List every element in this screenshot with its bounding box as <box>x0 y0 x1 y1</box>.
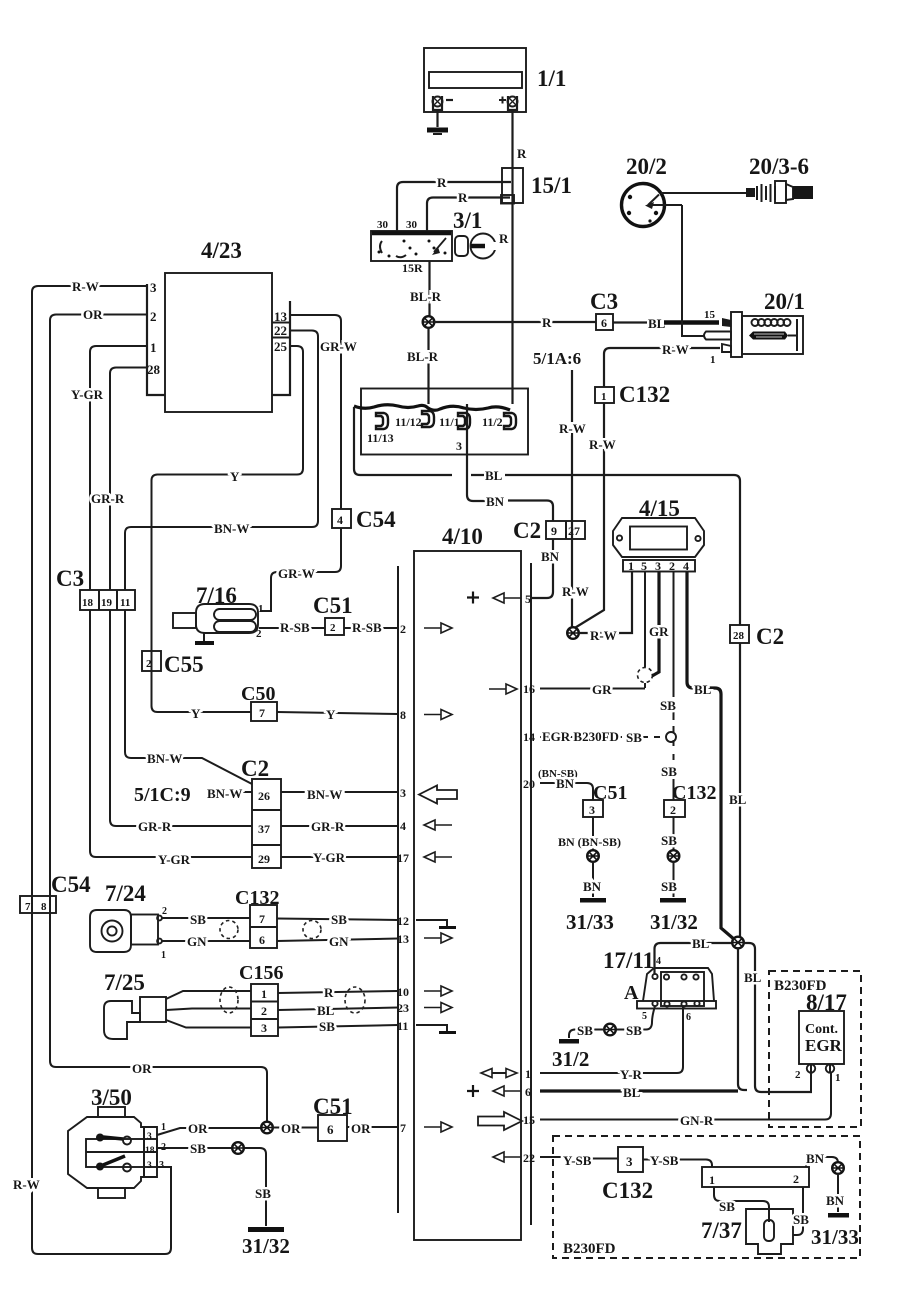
svg-text:5/1C:9: 5/1C:9 <box>134 784 191 806</box>
svg-text:7/16: 7/16 <box>196 583 237 608</box>
svg-text:C132: C132 <box>602 1178 653 1203</box>
wire Y-SB 4/10 pin22 to C132-3 <box>540 1157 618 1159</box>
wire Y-GR C2-29 to 4/10 pin17 <box>281 856 398 858</box>
svg-text:1: 1 <box>150 340 157 355</box>
svg-text:BN-W: BN-W <box>214 521 249 536</box>
svg-text:GN: GN <box>187 934 207 949</box>
svg-text:15/1: 15/1 <box>531 173 572 198</box>
connector C51 pin 3 <box>583 800 603 817</box>
wire GN C132-6 to 4/10 pin13 <box>277 939 398 942</box>
svg-text:7: 7 <box>259 706 265 720</box>
svg-text:SB: SB <box>190 912 206 927</box>
wire GR-W 4/23-13 to C54 <box>290 315 341 509</box>
junction SB <box>604 1024 616 1036</box>
svg-text:1: 1 <box>161 1122 166 1133</box>
junction OR <box>261 1122 273 1134</box>
svg-text:SB: SB <box>626 730 642 745</box>
svg-text:SB: SB <box>190 1141 206 1156</box>
svg-text:15R: 15R <box>402 261 423 275</box>
svg-text:1: 1 <box>261 987 267 1001</box>
connector C54 pin 4 <box>332 509 351 528</box>
svg-text:1: 1 <box>709 1173 715 1187</box>
shield marker right of C132 <box>303 921 321 939</box>
svg-text:2: 2 <box>669 559 675 573</box>
svg-text:2: 2 <box>795 1069 801 1081</box>
svg-text:2: 2 <box>330 622 336 634</box>
ground 31/33 <box>566 898 614 934</box>
junction BL <box>732 937 744 949</box>
svg-text:14: 14 <box>523 730 535 744</box>
svg-text:3: 3 <box>400 786 406 800</box>
svg-text:C51: C51 <box>313 1094 353 1119</box>
svg-text:20/2: 20/2 <box>626 154 667 179</box>
temp sensor 7/25 <box>104 997 166 1039</box>
svg-text:R: R <box>437 175 447 190</box>
half ground symbol at pin 12 <box>416 920 456 928</box>
svg-text:2: 2 <box>150 309 157 324</box>
svg-text:2: 2 <box>670 803 676 817</box>
ground 31/33 <box>811 1213 859 1249</box>
svg-text:OR: OR <box>351 1121 371 1136</box>
svg-text:6: 6 <box>601 316 607 330</box>
svg-text:BN-W: BN-W <box>307 787 342 802</box>
injector sub-box wall <box>466 404 468 454</box>
svg-text:7/37: 7/37 <box>701 1218 742 1243</box>
svg-text:30: 30 <box>406 219 418 231</box>
svg-text:BN: BN <box>486 494 505 509</box>
wire 4/15 pin5 to GR line <box>644 572 646 689</box>
injector 11/12 <box>422 411 434 427</box>
svg-text:C2: C2 <box>241 756 269 781</box>
wire BN C51-3 down <box>592 817 594 850</box>
wire BN-W C3-11 to C2-26 <box>125 610 252 784</box>
svg-text:R-W: R-W <box>559 421 586 436</box>
wire SB C156-3 to 4/10 pin11 <box>278 1025 398 1028</box>
svg-text:GR-W: GR-W <box>278 566 315 581</box>
svg-text:31/2: 31/2 <box>552 1047 589 1071</box>
svg-text:C3: C3 <box>56 566 84 591</box>
svg-text:8: 8 <box>400 708 406 722</box>
svg-text:1: 1 <box>161 950 166 961</box>
svg-text:BL: BL <box>623 1085 641 1100</box>
junction BL-R/R <box>423 316 435 328</box>
svg-text:EGR B230FD: EGR B230FD <box>542 729 619 744</box>
svg-text:Y-SB: Y-SB <box>650 1153 679 1168</box>
EGR controller enclosure B230FD <box>769 971 861 1127</box>
svg-text:BN-W: BN-W <box>207 786 242 801</box>
svg-text:BL: BL <box>485 468 503 483</box>
svg-text:R-W: R-W <box>590 628 617 643</box>
svg-text:3: 3 <box>147 1161 152 1171</box>
svg-text:BL-R: BL-R <box>410 289 442 304</box>
svg-text:3: 3 <box>147 1132 152 1142</box>
shield marker on 7/25 wires <box>220 987 238 1013</box>
svg-text:13: 13 <box>274 309 288 324</box>
svg-text:R-W: R-W <box>589 437 616 452</box>
svg-text:BN-W: BN-W <box>147 751 182 766</box>
svg-text:Y-SB: Y-SB <box>563 1153 592 1168</box>
solenoid 7/37 <box>746 1209 793 1254</box>
knock sensor 7/24 <box>90 910 162 952</box>
svg-text:7: 7 <box>25 901 31 913</box>
wire R-W from 5/1A:6 through C2-27 to junction <box>571 370 573 627</box>
svg-text:BL-R: BL-R <box>407 349 439 364</box>
svg-text:9: 9 <box>551 524 557 538</box>
svg-text:C2: C2 <box>513 518 541 543</box>
svg-text:Y-GR: Y-GR <box>71 387 104 402</box>
wire SB relay-5 to junction <box>616 1006 655 1030</box>
svg-text:R: R <box>458 190 468 205</box>
arrow at pin 4 <box>424 820 452 830</box>
wire GR 4/10-16 to 4/15-5 <box>540 688 645 690</box>
EGR controller 8/17 <box>799 1011 844 1073</box>
upper contact of 3/50 <box>96 1134 131 1145</box>
wire Y 4/23-25 to C55 <box>152 346 304 651</box>
throttle switch 3/50 <box>68 1107 157 1198</box>
ECU 4/23 <box>147 273 290 412</box>
svg-text:BL: BL <box>729 792 747 807</box>
svg-text:OR: OR <box>83 307 103 322</box>
svg-text:C50: C50 <box>241 683 275 705</box>
svg-text:SB: SB <box>577 1023 593 1038</box>
svg-text:8: 8 <box>41 901 47 913</box>
wire R-W through C2-27 <box>571 521 573 539</box>
wire BL junction down to pin6 line <box>738 948 747 1090</box>
svg-text:20/1: 20/1 <box>764 289 805 314</box>
svg-text:GR-R: GR-R <box>91 491 125 506</box>
wire 7/25 to C156-1 <box>166 991 251 999</box>
svg-text:R-W: R-W <box>13 1177 40 1192</box>
wire R battery to fuse 15/1 <box>511 110 513 168</box>
junction R-W <box>567 627 579 639</box>
svg-text:GR-R: GR-R <box>311 819 345 834</box>
svg-text:BN: BN <box>583 879 602 894</box>
svg-text:BN: BN <box>556 776 575 791</box>
svg-text:7: 7 <box>400 1121 406 1135</box>
wire R-W coil to C132 <box>604 348 720 387</box>
svg-text:BN (BN-SB): BN (BN-SB) <box>558 835 621 849</box>
svg-text:6: 6 <box>259 933 265 947</box>
svg-text:4: 4 <box>400 819 406 833</box>
svg-text:SB: SB <box>661 833 677 848</box>
svg-text:2: 2 <box>400 622 406 636</box>
connector block of 7/37 <box>702 1167 809 1187</box>
double arrow at pin 1 <box>481 1069 517 1078</box>
connector C132 pins 7/6 <box>250 905 277 948</box>
svg-text:BN: BN <box>806 1151 825 1166</box>
shield marker right of C156 <box>345 987 365 1013</box>
svg-text:6: 6 <box>525 1085 531 1099</box>
svg-text:6: 6 <box>327 1122 334 1137</box>
inline connector on SB wire <box>666 732 676 742</box>
wire SB C132-7 to 4/10 pin12 <box>277 919 398 921</box>
svg-text:28: 28 <box>147 362 161 377</box>
svg-text:11: 11 <box>397 1019 408 1033</box>
wire R-SB 7/16-2 to C51 <box>259 627 325 629</box>
svg-text:R-SB: R-SB <box>280 620 310 635</box>
svg-text:R-W: R-W <box>72 279 99 294</box>
connector C54 pins 7/8 <box>20 896 56 913</box>
svg-text:BL: BL <box>692 936 710 951</box>
wire GR-R C3-19 to C2-37 <box>110 610 252 826</box>
svg-text:20/3-6: 20/3-6 <box>749 154 809 179</box>
block arrow at pin 15 <box>478 1112 522 1130</box>
junction BN <box>587 850 599 862</box>
connector C2 pin 28 <box>730 625 749 643</box>
wire SB 3/50-2 to ground <box>157 1148 266 1226</box>
svg-text:Cont.: Cont. <box>805 1022 838 1037</box>
svg-text:12: 12 <box>397 914 409 928</box>
svg-text:1: 1 <box>628 559 634 573</box>
svg-text:SB: SB <box>660 698 676 713</box>
svg-text:18: 18 <box>82 597 94 609</box>
wire GR-R 4/23-28 to C3-19 <box>110 368 147 591</box>
svg-text:1/1: 1/1 <box>537 66 566 91</box>
svg-text:C55: C55 <box>164 652 204 677</box>
svg-text:10: 10 <box>397 985 409 999</box>
connector C156 pins 1/2/3 <box>251 984 278 1036</box>
svg-text:1: 1 <box>525 1067 531 1081</box>
svg-text:GR-R: GR-R <box>138 819 172 834</box>
svg-text:Y: Y <box>230 469 240 484</box>
svg-text:SB: SB <box>661 764 677 779</box>
wire BN 4/10 pin20 to C51 <box>540 783 593 800</box>
wire BN C2-9 to 4/10 pin5 <box>531 539 553 598</box>
svg-text:11: 11 <box>120 597 130 609</box>
wire GR-R C2-37 to 4/10 pin4 <box>281 825 398 827</box>
wire BN 7/37-2 to ground <box>806 1157 838 1167</box>
svg-text:16: 16 <box>523 682 535 696</box>
wire BL 4/15 pin4 to junction <box>687 572 735 941</box>
wire OR 3/50-1 to junction <box>157 1128 261 1135</box>
injector unit box 11/1 11/2 11/12 11/13 <box>361 389 528 455</box>
svg-text:BN: BN <box>826 1193 845 1208</box>
wire R junction to connector C3 <box>434 321 596 323</box>
wire BN-W 5/1C:9 to C2-26 <box>207 791 252 793</box>
svg-text:7/24: 7/24 <box>105 881 146 906</box>
wire Y-GR 4/23-1 to C3-18 <box>90 346 147 590</box>
wire R-SB C51 to 4/10 pin2 <box>344 627 398 629</box>
svg-text:7: 7 <box>259 912 265 926</box>
svg-text:OR: OR <box>188 1121 208 1136</box>
ignition switch 3/1 <box>371 231 452 261</box>
connector C2 pins 9/27 <box>546 521 585 539</box>
svg-text:15: 15 <box>704 309 716 321</box>
svg-text:31/33: 31/33 <box>811 1225 859 1249</box>
wire 7/25 to C156-2 <box>166 1009 251 1011</box>
svg-text:SB: SB <box>331 912 347 927</box>
svg-text:37: 37 <box>258 822 270 836</box>
svg-text:R: R <box>517 146 527 161</box>
arrow at pin 2 <box>424 623 452 633</box>
svg-text:2: 2 <box>793 1172 799 1186</box>
svg-text:25: 25 <box>274 339 288 354</box>
svg-text:8/17: 8/17 <box>806 990 847 1015</box>
wire 3/50-3 stub <box>157 1166 171 1168</box>
arrow at pin 17 <box>424 852 452 862</box>
relay 17/11 <box>637 968 716 1009</box>
wire distributor to spark plugs <box>661 192 746 194</box>
svg-text:18: 18 <box>145 1146 155 1156</box>
svg-text:Y: Y <box>191 706 201 721</box>
svg-text:22: 22 <box>523 1151 535 1165</box>
shield marker on pin5 wire <box>638 668 653 683</box>
svg-text:23: 23 <box>397 1001 409 1015</box>
svg-text:28: 28 <box>733 630 745 642</box>
svg-text:4/15: 4/15 <box>639 496 680 521</box>
wire OR junction to C51 <box>273 1127 319 1129</box>
svg-text:3: 3 <box>261 1021 267 1035</box>
wire BN-W 4/23-22 to C3-11 <box>125 331 318 591</box>
connector C132 pin 3 <box>618 1147 643 1172</box>
ground 31/32 <box>650 898 698 934</box>
svg-text:R-W: R-W <box>662 342 689 357</box>
svg-text:3/50: 3/50 <box>91 1085 132 1110</box>
spark plug 20/3-6 <box>746 181 813 203</box>
wire BL to EGR pin 2 <box>810 1073 812 1092</box>
svg-text:SB: SB <box>793 1212 809 1227</box>
wire GR 4/15 pin3 <box>652 572 659 677</box>
wire GN 7/24 to C132-6 <box>162 940 250 942</box>
half ground symbol at pin 11 <box>416 1025 456 1033</box>
svg-text:C132: C132 <box>235 887 279 909</box>
svg-text:C132: C132 <box>672 782 716 804</box>
wire SB 7/37-2 to solenoid <box>793 1187 803 1235</box>
ignition key symbol <box>455 234 498 259</box>
battery positive terminal <box>499 96 518 110</box>
svg-text:17: 17 <box>397 851 409 865</box>
arrow at pin 16 <box>489 684 517 694</box>
svg-text:R-W: R-W <box>562 584 589 599</box>
connector C51 pin 6 <box>318 1115 347 1141</box>
connector C3 pins 18/19/11 <box>80 590 135 610</box>
wire 3 from injector unit <box>467 454 485 501</box>
wire BL-R switch to junction <box>428 261 430 317</box>
wire SB dashed from 4/10 pin14 <box>540 736 660 738</box>
connector C51 pin 2 <box>325 618 344 635</box>
svg-text:29: 29 <box>258 852 270 866</box>
svg-text:11/13: 11/13 <box>367 431 394 445</box>
wire BL injector unit left leg <box>354 407 360 475</box>
wire BL-R junction down to injector unit <box>427 328 429 405</box>
connector C132 pin 2 <box>664 800 685 817</box>
svg-text:4: 4 <box>683 559 689 573</box>
svg-text:3: 3 <box>150 280 157 295</box>
svg-text:GR-W: GR-W <box>320 339 357 354</box>
svg-text:13: 13 <box>397 932 409 946</box>
svg-text:4: 4 <box>337 513 343 527</box>
svg-text:2: 2 <box>162 906 167 917</box>
svg-text:Y-GR: Y-GR <box>313 850 346 865</box>
svg-text:C54: C54 <box>51 872 91 897</box>
wire BL 4/10 pin6 <box>540 1089 738 1092</box>
svg-text:GR: GR <box>649 624 669 639</box>
wire Y-R 4/10 pin1 to relay-6 <box>540 1007 683 1073</box>
svg-text:SB: SB <box>719 1199 735 1214</box>
svg-text:C51: C51 <box>313 593 353 618</box>
svg-text:31/32: 31/32 <box>650 910 698 934</box>
bottom enclosure B230FD <box>553 1136 860 1258</box>
wire SB 4/15 pin2 down <box>673 572 675 801</box>
svg-text:5/1A:6: 5/1A:6 <box>533 349 581 368</box>
wire Y C55 to C50 <box>152 671 252 712</box>
svg-text:C2: C2 <box>756 624 784 649</box>
wire BL relay-4 to junction <box>655 943 733 974</box>
junction SB <box>232 1142 244 1154</box>
ground 31/32 <box>242 1227 290 1258</box>
svg-text:2: 2 <box>256 628 262 640</box>
wire GR-W C54 to 7/16 pin1 <box>260 528 341 611</box>
svg-text:Y-R: Y-R <box>620 1067 643 1082</box>
arrow at pin 13 <box>424 933 452 943</box>
wire SB junction to ground <box>569 1030 605 1039</box>
wire BN to C2 pin 9 <box>508 501 553 522</box>
wire BN to ground 31/33 <box>837 1174 839 1213</box>
svg-text:1: 1 <box>710 354 716 366</box>
arrow at pin 8 <box>424 710 452 720</box>
svg-text:11/2: 11/2 <box>482 415 503 429</box>
wire R-W 4/23-3 to 3/50-3 <box>32 286 171 1254</box>
svg-text:1: 1 <box>601 391 607 403</box>
svg-text:SB: SB <box>319 1019 335 1034</box>
svg-text:1: 1 <box>258 603 264 615</box>
sensor 7/16 <box>173 604 258 633</box>
svg-text:7/25: 7/25 <box>104 970 145 995</box>
svg-text:BN: BN <box>541 549 560 564</box>
svg-text:GN: GN <box>329 934 349 949</box>
svg-text:A: A <box>624 982 639 1004</box>
svg-text:Y: Y <box>326 707 336 722</box>
svg-text:5: 5 <box>525 592 531 606</box>
svg-text:2: 2 <box>146 658 152 670</box>
svg-text:B230FD: B230FD <box>563 1241 616 1257</box>
svg-text:C54: C54 <box>356 507 396 532</box>
svg-text:OR: OR <box>281 1121 301 1136</box>
ECU 4/10 <box>398 551 531 1240</box>
svg-text:C51: C51 <box>593 782 627 804</box>
wire R-W C132 down <box>573 403 604 629</box>
plus sign at pin 6 <box>467 1085 479 1097</box>
battery negative terminal <box>433 96 454 110</box>
svg-text:R: R <box>324 985 334 1000</box>
svg-text:3: 3 <box>626 1154 633 1169</box>
svg-text:BL: BL <box>744 970 762 985</box>
arrow at pin 6 <box>493 1086 521 1096</box>
svg-text:26: 26 <box>258 789 270 803</box>
svg-text:27: 27 <box>568 524 580 538</box>
wire BL C156-2 to 4/10 pin23 <box>278 1008 398 1011</box>
wire BN-W C2-26 to 4/10 pin3 <box>281 791 398 793</box>
svg-text:R-SB: R-SB <box>352 620 382 635</box>
distributor 20/2 <box>622 184 683 227</box>
wire R fuse to ignition switch 30 (lower) <box>427 198 510 232</box>
injector rail harness <box>354 405 510 411</box>
ground 31/2 <box>552 1039 589 1071</box>
svg-text:GN-R: GN-R <box>680 1113 714 1128</box>
svg-text:3: 3 <box>589 803 595 817</box>
svg-text:30: 30 <box>377 219 389 231</box>
svg-text:11/1: 11/1 <box>439 415 460 429</box>
svg-text:C132: C132 <box>619 382 670 407</box>
svg-text:17/11: 17/11 <box>603 948 654 973</box>
plus sign at pin 5 <box>467 592 479 604</box>
svg-text:Y-GR: Y-GR <box>158 852 191 867</box>
lower contact of 3/50 <box>96 1156 131 1172</box>
arrow at pin 22 <box>493 1152 521 1162</box>
svg-text:3: 3 <box>456 439 462 453</box>
junction BN <box>832 1162 844 1174</box>
wire OR C51 to 4/10 pin7 <box>347 1126 398 1128</box>
